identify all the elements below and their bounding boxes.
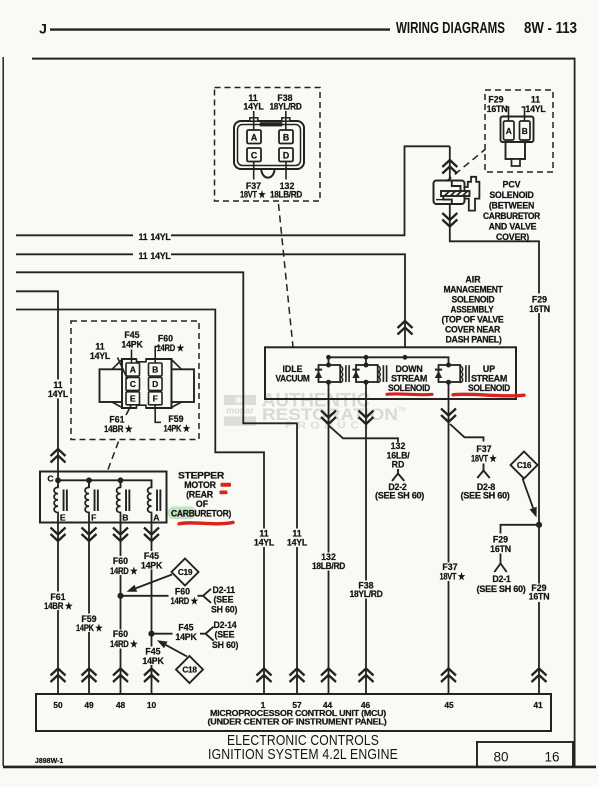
pin C — [126, 377, 140, 390]
svg-text:TM: TM — [398, 407, 405, 413]
svg-text:8W - 113: 8W - 113 — [524, 20, 577, 37]
svg-text:C18: C18 — [182, 665, 197, 675]
pin A — [247, 130, 261, 144]
svg-text:14RD ★: 14RD ★ — [110, 639, 138, 649]
svg-text:STREAM: STREAM — [471, 374, 507, 384]
connector body 4-way — [234, 121, 304, 169]
svg-text:CARBURETOR): CARBURETOR) — [171, 508, 231, 518]
svg-text:D: D — [283, 150, 289, 160]
svg-text:CARBURETOR: CARBURETOR — [483, 211, 541, 221]
splice symbol D2-8 — [477, 464, 489, 479]
arrow from C18 to F45 junction — [166, 645, 187, 657]
connector arrows at pin 45 — [441, 669, 456, 683]
svg-text:49: 49 — [84, 700, 94, 710]
svg-text:(SEE SH 60): (SEE SH 60) — [477, 584, 526, 594]
svg-text:F37: F37 — [476, 444, 491, 454]
svg-text:10: 10 — [147, 700, 157, 710]
stepper motor connector dashed box — [71, 321, 199, 440]
solenoid L8 up stream — [439, 365, 461, 382]
connector arrows below coil B — [113, 528, 128, 542]
svg-text:DASH PANEL): DASH PANEL) — [446, 335, 502, 345]
pin D — [149, 377, 163, 390]
svg-text:C: C — [251, 150, 258, 160]
wire F29 16TN from PCV solenoid to MCU pin 41 — [450, 146, 539, 694]
pin B lead — [522, 107, 525, 121]
svg-text:VACUUM: VACUUM — [276, 374, 310, 384]
connector arrows at pin 41 — [532, 669, 547, 683]
label 11 14YL on bus 1 — [133, 231, 171, 242]
svg-text:(BETWEEN: (BETWEEN — [489, 201, 534, 211]
pin E — [126, 392, 140, 405]
label F60 14RD upper — [107, 556, 135, 575]
wire 11 14YL bus 2 (feed to air management assembly) — [16, 254, 405, 348]
label F29 16TN lower right — [527, 584, 552, 603]
svg-text:COVER NEAR: COVER NEAR — [445, 325, 501, 335]
node F45 junction — [148, 631, 154, 637]
svg-text:(SEE: (SEE — [214, 595, 234, 605]
connector arrows on stepper feed — [51, 449, 66, 463]
svg-text:14YL: 14YL — [243, 101, 264, 111]
PCV connector body — [501, 117, 534, 143]
svg-text:COVER): COVER) — [496, 232, 529, 242]
svg-text:11: 11 — [139, 251, 148, 261]
label F45 14PK upper — [139, 551, 165, 570]
svg-text:SOLENOID: SOLENOID — [388, 383, 430, 393]
node bus at coil B — [118, 477, 124, 483]
stepper coil E — [54, 480, 58, 522]
connector arrows on air feed wire — [398, 321, 413, 335]
svg-text:14YL: 14YL — [254, 538, 275, 548]
connector arrows below coil F — [82, 528, 97, 542]
pin B lead — [285, 111, 287, 130]
svg-text:STREAM: STREAM — [391, 374, 427, 384]
svg-text:(SEE SH 60): (SEE SH 60) — [461, 491, 510, 501]
node bus at coil F — [86, 477, 92, 483]
pin C lead — [253, 162, 255, 180]
svg-text:16TN: 16TN — [529, 592, 550, 602]
dashed leader from connector to air assembly — [279, 204, 294, 347]
label 11 14YL near pin 57 — [286, 529, 308, 548]
svg-text:F60: F60 — [113, 629, 128, 639]
svg-text:(SEE SH 60): (SEE SH 60) — [375, 491, 424, 501]
label F29 16TN upper right — [527, 294, 552, 314]
svg-text:14RD ★: 14RD ★ — [157, 343, 185, 353]
pin B — [149, 363, 163, 376]
arrow from C19 to F60 junction — [136, 575, 172, 589]
wire 11 14YL bus 4 (to stepper motor terminal C) — [16, 291, 58, 480]
label F61 14BR — [44, 592, 72, 611]
svg-text:STEPPER: STEPPER — [178, 471, 225, 481]
svg-text:E: E — [130, 394, 136, 404]
connector arrows below coil E — [51, 528, 66, 542]
svg-text:F59: F59 — [168, 414, 183, 424]
svg-text:41: 41 — [533, 700, 543, 710]
svg-text:IDLE: IDLE — [282, 364, 302, 374]
label 11 14YL near pin 1 — [253, 529, 275, 548]
svg-text:SH 60): SH 60) — [211, 605, 237, 615]
svg-text:14YL: 14YL — [287, 538, 308, 548]
wire branch to splice D2-2 — [329, 426, 398, 443]
wire 11 14YL bus 1 (to PCV solenoid feed) — [16, 146, 450, 235]
svg-text:14YL: 14YL — [150, 232, 171, 242]
node bus at down stream solenoid — [364, 355, 369, 360]
svg-text:80: 80 — [493, 749, 508, 764]
svg-text:UP: UP — [483, 364, 495, 374]
air management solenoid assembly box — [265, 347, 516, 399]
label F45 14PK lower — [141, 647, 167, 666]
svg-text:F: F — [91, 513, 96, 523]
pin B leader — [155, 347, 160, 364]
svg-text:48: 48 — [116, 700, 126, 710]
pin D — [279, 148, 293, 162]
pin A lead — [506, 107, 509, 121]
connector body 6-way — [122, 359, 172, 408]
label F37 18VT on wire 45 — [434, 563, 468, 582]
svg-text:D: D — [152, 379, 158, 389]
svg-text:SOLENOID: SOLENOID — [489, 190, 533, 200]
connector arrows at pin 10 — [144, 669, 159, 683]
PCV solenoid valve symbol — [434, 181, 465, 205]
connector C16 — [511, 452, 538, 479]
solenoid L7 down stream — [356, 365, 378, 382]
stepper motor box — [40, 472, 167, 523]
svg-text:C: C — [47, 473, 53, 483]
svg-text:18VT ★: 18VT ★ — [440, 572, 466, 582]
dashed leader from connector box to stepper motor — [108, 442, 119, 470]
svg-text:D2-14: D2-14 — [214, 620, 237, 630]
svg-text:F60: F60 — [113, 556, 128, 566]
svg-text:RD: RD — [392, 460, 405, 470]
label 11 14YL on bus 2 — [133, 250, 171, 261]
svg-text:18VT ★: 18VT ★ — [240, 190, 266, 200]
splice symbol D2-1 — [494, 564, 506, 573]
svg-text:(TOP OF VALVE: (TOP OF VALVE — [442, 315, 504, 325]
pin E leader — [126, 405, 132, 416]
coil drop to F — [88, 480, 90, 487]
node F29 junction — [536, 522, 542, 528]
red annotation mark 2 — [220, 491, 228, 495]
splice symbol D2-14 — [200, 627, 214, 641]
pin F — [149, 392, 163, 405]
stepper coil B — [117, 480, 121, 522]
svg-text:14YL: 14YL — [48, 389, 69, 399]
red annotation mark 1 — [221, 483, 232, 487]
connector arrows above PCV solenoid — [442, 160, 457, 174]
svg-text:F61: F61 — [109, 415, 124, 425]
svg-text:11: 11 — [139, 232, 148, 242]
connector arrows below down stream solenoid — [359, 411, 374, 425]
svg-text:18LB/RD: 18LB/RD — [312, 561, 345, 571]
wire stub to splice D2-1 — [500, 554, 502, 564]
wire F60 14RD coil B to MCU pin 48 — [120, 523, 122, 695]
red annotation underline under CARBURETOR — [179, 522, 233, 523]
stepper coil F — [85, 480, 89, 522]
svg-text:14RD ★: 14RD ★ — [171, 596, 199, 606]
node bus at coil E — [55, 477, 61, 483]
label 132 18LB/RD on wire 44 — [311, 553, 346, 571]
svg-text:DOWN: DOWN — [395, 364, 422, 374]
svg-text:A: A — [506, 126, 512, 136]
wire branch F45 to splice D2-14 — [152, 633, 173, 635]
pin D lead — [285, 162, 287, 180]
pin C — [247, 148, 261, 162]
svg-text:A: A — [251, 132, 258, 142]
red annotation underline (up stream) — [453, 394, 524, 396]
svg-text:ASSEMBLY: ASSEMBLY — [451, 305, 494, 315]
svg-text:14BR ★: 14BR ★ — [104, 424, 133, 434]
svg-text:B: B — [522, 126, 528, 136]
connector arrows at pin 46 — [359, 669, 374, 683]
svg-text:F: F — [153, 394, 158, 404]
svg-text:B: B — [122, 513, 128, 523]
connector arrows at pin 57 — [290, 669, 305, 683]
internal feed bus — [329, 357, 449, 363]
svg-text:SOLENOID: SOLENOID — [468, 383, 510, 393]
splice symbol D2-2 — [392, 469, 404, 481]
svg-text:MOTOR: MOTOR — [184, 480, 216, 490]
svg-text:SH 60): SH 60) — [212, 640, 238, 650]
svg-text:B: B — [152, 365, 158, 375]
svg-text:C: C — [130, 379, 136, 389]
svg-text:14YL: 14YL — [525, 104, 546, 114]
stepper coil A — [148, 480, 152, 522]
svg-text:AND VALVE: AND VALVE — [489, 222, 537, 232]
svg-text:C16: C16 — [517, 460, 532, 470]
svg-text:AIR: AIR — [465, 275, 481, 285]
svg-text:18LB/RD: 18LB/RD — [270, 190, 302, 200]
label 11 14YL on stepper feed — [46, 380, 70, 399]
connector arrows below up stream solenoid — [441, 409, 456, 423]
svg-text:14PK ★: 14PK ★ — [76, 623, 103, 633]
svg-text:18VT ★: 18VT ★ — [471, 454, 497, 464]
splice symbol D2-11 — [198, 589, 212, 603]
connector arrows at pin 44 — [321, 669, 336, 683]
microprocessor control unit box — [36, 694, 551, 731]
pin C leader — [118, 358, 128, 380]
wire F38 18YL/RD to MCU pin 46 — [365, 382, 367, 694]
svg-text:mopar: mopar — [226, 406, 254, 416]
svg-text:132: 132 — [391, 441, 406, 451]
svg-text:A: A — [130, 365, 136, 375]
pin A lead — [253, 111, 255, 130]
red annotation underline (down stream) — [387, 392, 432, 396]
connector arrows below coil A — [144, 528, 159, 542]
wire branch to splice D2-8 — [450, 424, 484, 442]
svg-text:PCV: PCV — [502, 180, 520, 190]
label F38 18YL/RD on wire 46 — [349, 581, 384, 599]
svg-text:14YL: 14YL — [90, 351, 111, 361]
pin B — [520, 121, 531, 140]
label F59 14PK — [75, 614, 103, 633]
node bus at feed — [403, 355, 408, 360]
dashed leader from PCV solenoid to connector — [437, 150, 485, 190]
svg-text:16: 16 — [544, 749, 559, 764]
connector arrows at pin 1 — [257, 669, 272, 683]
svg-text:14YL: 14YL — [150, 251, 171, 261]
svg-text:E: E — [60, 513, 66, 523]
svg-text:B: B — [283, 132, 289, 142]
svg-text:14PK: 14PK — [175, 632, 197, 642]
svg-text:14PK ★: 14PK ★ — [164, 424, 191, 434]
connector arrows at pin 49 — [82, 669, 97, 683]
svg-text:IGNITION SYSTEM 4.2L ENGINE: IGNITION SYSTEM 4.2L ENGINE — [208, 746, 398, 763]
coil drop to B — [120, 480, 122, 487]
node bus at idle vacuum solenoid — [326, 355, 331, 360]
PCV solenoid connector dashed box — [485, 90, 553, 172]
svg-text:C19: C19 — [178, 567, 193, 577]
pin A — [126, 363, 140, 376]
wire F61 14BR coil E to MCU pin 50 — [57, 523, 59, 695]
svg-text:SOLENOID: SOLENOID — [452, 295, 495, 305]
svg-text:WIRING DIAGRAMS: WIRING DIAGRAMS — [396, 20, 505, 37]
svg-text:18YL/RD: 18YL/RD — [270, 101, 302, 111]
wire F59 14PK coil F to MCU pin 49 — [88, 523, 90, 695]
svg-text:18YL/RD: 18YL/RD — [350, 589, 383, 599]
svg-text:14PK: 14PK — [121, 339, 143, 349]
pin B — [279, 130, 293, 144]
svg-text:(SEE: (SEE — [215, 630, 235, 640]
connector arrows at pin 48 — [113, 669, 128, 683]
svg-text:16TN: 16TN — [490, 544, 511, 554]
svg-text:16TN: 16TN — [529, 304, 550, 314]
node F60 junction — [117, 593, 123, 599]
connector C18 — [176, 656, 203, 683]
connector arrows below idle vacuum solenoid — [321, 411, 336, 425]
carburetor switch connector dashed box — [215, 88, 321, 202]
label F60 14RD lower — [107, 630, 135, 649]
svg-text:50: 50 — [53, 700, 63, 710]
wire branch F29 to splice D2-1 — [501, 525, 540, 534]
sheet number box — [477, 742, 573, 767]
internal bus — [58, 480, 152, 487]
svg-text:14RD ★: 14RD ★ — [110, 566, 138, 576]
connector arrows at pin 50 — [51, 669, 66, 683]
svg-text:A: A — [153, 513, 159, 523]
arrow from C16 to F29 junction — [523, 479, 534, 509]
wire F45 14PK coil A to MCU pin 10 — [151, 523, 153, 695]
svg-text:J: J — [39, 21, 47, 37]
wire F37 18VT to MCU pin 45 — [448, 382, 450, 694]
svg-text:D2-1: D2-1 — [492, 574, 511, 584]
svg-text:14BR ★: 14BR ★ — [44, 601, 73, 611]
svg-text:D2-11: D2-11 — [213, 585, 236, 595]
svg-text:45: 45 — [444, 700, 454, 710]
svg-text:14PK: 14PK — [141, 560, 163, 570]
pin F leader — [155, 405, 161, 423]
svg-text:MANAGEMENT: MANAGEMENT — [444, 285, 504, 295]
svg-text:16TN: 16TN — [487, 104, 508, 114]
wire 11 14YL bus 3 (to MCU pin 57) — [16, 272, 297, 694]
green annotation highlight on CARBURETOR — [168, 507, 197, 520]
connector arrows below PCV solenoid — [442, 213, 457, 227]
wire 11 14YL bus 5 (to MCU pin 1) — [16, 310, 264, 695]
pin A leader — [131, 350, 133, 364]
wire branch F60 to splice D2-11 — [121, 595, 169, 597]
wire 132 18LB/RD to MCU pin 44 — [328, 382, 330, 694]
svg-text:(UNDER CENTER OF INSTRUMENT PA: (UNDER CENTER OF INSTRUMENT PANEL) — [208, 718, 388, 727]
svg-text:J898W-1: J898W-1 — [35, 758, 63, 765]
pin A — [504, 121, 515, 140]
svg-text:14PK: 14PK — [142, 656, 164, 666]
solenoid L6 idle vacuum — [319, 365, 341, 382]
connector C19 — [172, 559, 199, 586]
